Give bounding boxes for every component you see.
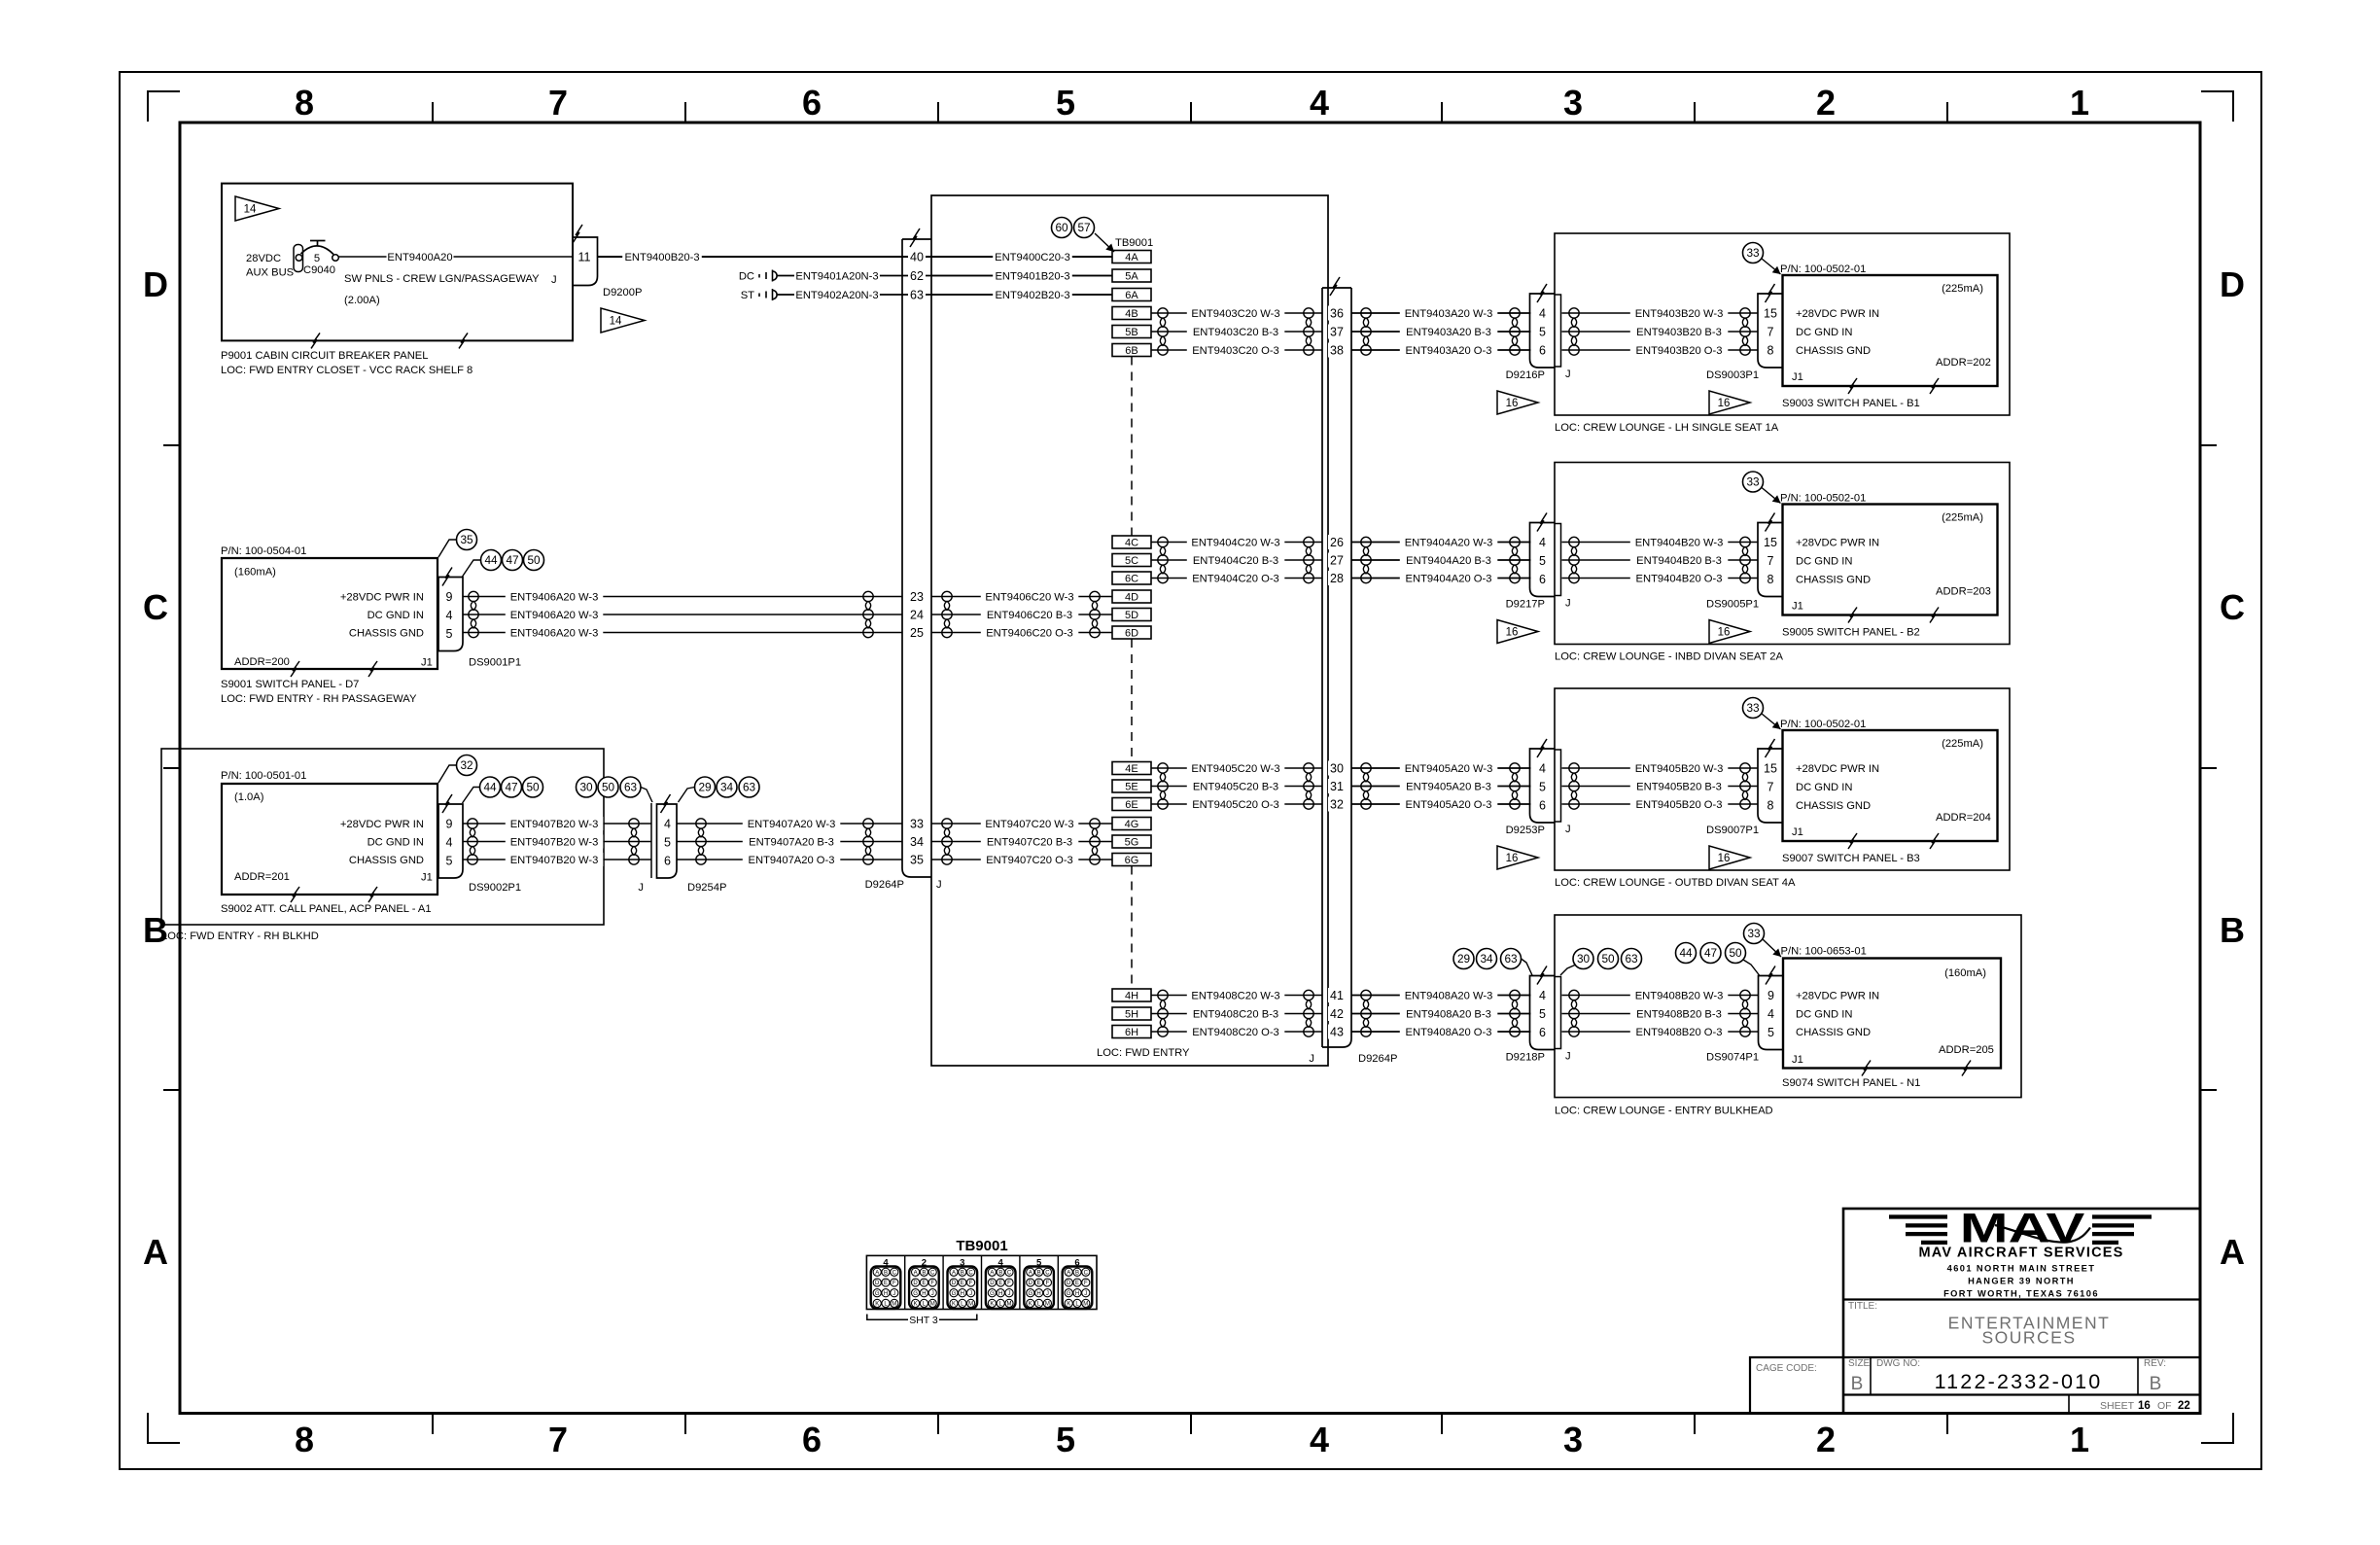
module 4 contacts <box>988 1268 1013 1307</box>
twisted shield symbol <box>1740 537 1750 582</box>
svg-text:DC GND IN: DC GND IN <box>1796 1009 1852 1021</box>
svg-text:DS9005P1: DS9005P1 <box>1706 599 1759 611</box>
wire ENT9404B20 O-3 <box>1562 578 1759 579</box>
svg-text:35: 35 <box>460 533 473 546</box>
zone tick right <box>2200 767 2217 769</box>
svg-text:K: K <box>875 1302 879 1308</box>
svg-text:B: B <box>1075 1271 1079 1277</box>
svg-text:H: H <box>1075 1291 1079 1297</box>
svg-text:63: 63 <box>1504 952 1518 966</box>
svg-text:8: 8 <box>1767 798 1774 812</box>
svg-text:P/N: 100-0502-01: P/N: 100-0502-01 <box>1780 263 1866 275</box>
svg-text:J: J <box>1565 369 1571 380</box>
wire ENT9402B20-3 <box>931 294 1112 296</box>
twisted shield symbol <box>1740 308 1750 355</box>
wire ENT9405B20 O-3 <box>1562 803 1759 805</box>
svg-text:(160mA): (160mA) <box>1944 967 1986 979</box>
wire ENT9403B20 O-3 <box>1562 349 1759 351</box>
svg-text:A: A <box>914 1271 918 1277</box>
svg-text:ENT9404B20 W-3: ENT9404B20 W-3 <box>1635 538 1724 549</box>
svg-text:J: J <box>1565 598 1571 610</box>
connector D9253P plug <box>1530 749 1556 823</box>
svg-text:B: B <box>1037 1271 1041 1277</box>
svg-text:S9007 SWITCH PANEL - B3: S9007 SWITCH PANEL - B3 <box>1782 853 1920 864</box>
svg-text:6: 6 <box>1539 798 1546 812</box>
wire ENT9404C20 W-3 <box>1151 542 1322 544</box>
S9002 inner box <box>222 784 437 895</box>
main drawing frame <box>180 123 2200 1414</box>
circled wire note 34 <box>717 777 737 797</box>
break symbol on DS9003P1 <box>1766 284 1775 302</box>
wire ENT9403A20 B-3 <box>1351 331 1531 333</box>
leader from 32 <box>438 765 457 783</box>
svg-text:CHASSIS GND: CHASSIS GND <box>1796 1027 1871 1038</box>
svg-text:D: D <box>143 264 168 304</box>
wire ENT9407B20 W-3 <box>463 859 651 860</box>
svg-text:ENT9401A20N-3: ENT9401A20N-3 <box>795 271 878 283</box>
connector DS9074P1 plug <box>1759 976 1784 1050</box>
svg-text:50: 50 <box>1601 952 1615 966</box>
pin 62 of D9264P <box>908 268 926 283</box>
zone tick left <box>163 444 180 446</box>
svg-text:6: 6 <box>802 83 822 123</box>
leader from 63 <box>1522 959 1533 975</box>
S9007 outer box <box>1555 688 2010 870</box>
svg-text:E: E <box>961 1281 964 1286</box>
svg-text:J1: J1 <box>421 872 433 884</box>
break symbol on inner box bottom <box>1962 1061 1971 1076</box>
svg-text:33: 33 <box>1746 475 1760 489</box>
wire ENT9406A20 W-3 <box>463 614 902 615</box>
svg-text:SOURCES: SOURCES <box>1981 1328 2076 1348</box>
svg-text:43: 43 <box>1330 1025 1344 1038</box>
svg-text:44: 44 <box>1679 946 1693 960</box>
svg-text:4B: 4B <box>1125 308 1137 320</box>
break symbol on inner box bottom <box>1930 833 1939 849</box>
svg-text:4: 4 <box>1767 1007 1774 1021</box>
svg-text:C: C <box>2220 587 2245 627</box>
svg-text:ENT9407A20 O-3: ENT9407A20 O-3 <box>749 855 835 866</box>
pin 42 of D9264P right strip <box>1328 1006 1346 1021</box>
circled wire note 32 <box>457 755 477 776</box>
svg-text:FORT WORTH, TEXAS 76106: FORT WORTH, TEXAS 76106 <box>1943 1289 2099 1299</box>
svg-text:15: 15 <box>1764 306 1777 320</box>
svg-text:6: 6 <box>1539 573 1546 586</box>
twisted shield symbol <box>863 819 873 864</box>
module 5 insert <box>1024 1267 1054 1309</box>
svg-text:CHASSIS GND: CHASSIS GND <box>349 855 424 866</box>
svg-text:M: M <box>1083 1302 1088 1308</box>
svg-text:D9218P: D9218P <box>1506 1052 1545 1064</box>
svg-text:M: M <box>968 1302 973 1308</box>
svg-text:G: G <box>1028 1291 1032 1297</box>
svg-text:SHT 3: SHT 3 <box>909 1315 938 1326</box>
svg-text:DC GND IN: DC GND IN <box>1796 327 1852 338</box>
twisted shield symbol <box>1158 763 1168 809</box>
svg-text:DS9002P1: DS9002P1 <box>469 882 521 894</box>
title block divider under address <box>1843 1298 2200 1300</box>
twisted shield symbol <box>1510 537 1520 582</box>
svg-text:B: B <box>922 1271 926 1277</box>
twisted shield symbol <box>629 819 639 864</box>
title block divider under dwg row <box>1843 1393 2200 1395</box>
circled wire note 30 <box>577 777 597 797</box>
svg-text:ENT9403C20 W-3: ENT9403C20 W-3 <box>1191 308 1279 320</box>
svg-text:9: 9 <box>446 817 453 830</box>
break symbol on inner box bottom <box>1848 608 1857 623</box>
pin 31 of D9264P right strip <box>1328 779 1346 793</box>
svg-text:C: C <box>892 1271 897 1277</box>
twisted shield symbol <box>1158 990 1168 1036</box>
wire ENT9407A20 B-3 <box>677 841 902 843</box>
svg-text:DC GND IN: DC GND IN <box>1796 782 1852 793</box>
svg-text:D9264P: D9264P <box>1358 1053 1397 1065</box>
svg-text:ENT9404A20 O-3: ENT9404A20 O-3 <box>1406 574 1492 585</box>
svg-text:P/N: 100-0502-01: P/N: 100-0502-01 <box>1780 493 1866 505</box>
svg-text:4: 4 <box>1310 1420 1329 1459</box>
svg-text:11: 11 <box>578 251 591 264</box>
zone tick top <box>1441 102 1443 123</box>
svg-text:ADDR=201: ADDR=201 <box>234 871 290 883</box>
svg-text:G: G <box>990 1291 995 1297</box>
svg-text:D: D <box>913 1281 918 1286</box>
svg-text:31: 31 <box>1330 780 1344 793</box>
svg-text:ENT9404C20 O-3: ENT9404C20 O-3 <box>1192 574 1279 585</box>
circled wire note 29 <box>695 777 716 797</box>
svg-text:ENT9408B20 B-3: ENT9408B20 B-3 <box>1636 1009 1722 1021</box>
svg-text:5: 5 <box>446 627 453 641</box>
svg-text:J: J <box>551 274 557 286</box>
svg-text:G: G <box>875 1291 880 1297</box>
wire ENT9405A20 B-3 <box>1351 786 1531 788</box>
twisted shield symbol <box>1090 591 1100 637</box>
svg-text:ENT9403A20 B-3: ENT9403A20 B-3 <box>1406 327 1491 338</box>
svg-text:14: 14 <box>610 316 622 328</box>
twisted shield symbol <box>1569 990 1579 1036</box>
wire ENT9405C20 W-3 <box>1151 767 1322 769</box>
twisted shield symbol <box>1569 763 1579 809</box>
svg-text:5: 5 <box>1056 1420 1075 1459</box>
svg-text:34: 34 <box>720 781 734 794</box>
svg-text:E: E <box>922 1281 926 1286</box>
wire ENT9404B20 B-3 <box>1562 559 1759 561</box>
leader from 63 <box>641 788 652 803</box>
pin 40 of D9264P <box>908 250 926 264</box>
pin 28 of D9264P right strip <box>1328 571 1346 585</box>
svg-text:ENT9405C20 O-3: ENT9405C20 O-3 <box>1192 799 1279 811</box>
circled wire note 60 <box>1052 218 1072 238</box>
svg-text:47: 47 <box>506 553 518 567</box>
circled wire note 50 <box>598 777 618 797</box>
wire ENT9400B20-3 <box>598 256 1113 258</box>
twisted shield symbol <box>1304 308 1313 355</box>
svg-text:ENT9403B20 W-3: ENT9403B20 W-3 <box>1635 308 1724 320</box>
svg-text:F: F <box>1084 1281 1088 1286</box>
terminal TB9001-6G <box>1112 854 1151 866</box>
dashed link 6B to 4C <box>1131 357 1133 537</box>
wire ENT9408B20 O-3 <box>1562 1031 1759 1033</box>
svg-text:SW PNLS - CREW LGN/PASSAGEWAY: SW PNLS - CREW LGN/PASSAGEWAY <box>344 273 540 285</box>
svg-text:B: B <box>1851 1374 1864 1394</box>
svg-text:D9200P: D9200P <box>603 287 642 298</box>
terminal TB9001-5C <box>1112 554 1151 567</box>
circled wire note 29 <box>1453 949 1474 969</box>
flag note 14 <box>601 308 645 333</box>
connector D9254P receptacle line <box>650 803 652 878</box>
break symbol on D9264P right strip <box>1330 277 1340 296</box>
wire ENT9404C20 B-3 <box>1151 559 1322 561</box>
circled wire note 33 <box>1743 243 1764 263</box>
wire ENT9406A20 W-3 <box>463 596 902 598</box>
svg-text:ENT9403A20 O-3: ENT9403A20 O-3 <box>1406 345 1492 357</box>
svg-text:J: J <box>969 1291 972 1297</box>
svg-text:2: 2 <box>1816 83 1836 123</box>
svg-text:16: 16 <box>1506 627 1519 639</box>
svg-text:+28VDC PWR IN: +28VDC PWR IN <box>1796 991 1879 1002</box>
svg-text:7: 7 <box>1767 325 1774 338</box>
svg-text:4G: 4G <box>1125 819 1139 830</box>
svg-text:M: M <box>1045 1302 1050 1308</box>
svg-text:M: M <box>1007 1302 1012 1308</box>
svg-text:D: D <box>952 1281 957 1286</box>
svg-text:ENT9405C20 W-3: ENT9405C20 W-3 <box>1191 763 1279 775</box>
svg-text:ENT9403B20 B-3: ENT9403B20 B-3 <box>1636 327 1722 338</box>
corner trim bracket bottom-right <box>2201 1413 2233 1443</box>
zone tick bottom <box>1946 1414 1948 1435</box>
svg-text:K: K <box>952 1302 956 1308</box>
break symbol on D9216P <box>1537 284 1547 302</box>
svg-text:H: H <box>961 1291 964 1297</box>
terminal TB9001-6B <box>1112 344 1151 357</box>
svg-text:D: D <box>1029 1281 1033 1286</box>
svg-text:CHASSIS GND: CHASSIS GND <box>1796 345 1871 357</box>
svg-text:47: 47 <box>505 781 517 794</box>
svg-text:14: 14 <box>244 204 257 216</box>
svg-text:K: K <box>1067 1302 1070 1308</box>
svg-text:+28VDC PWR IN: +28VDC PWR IN <box>340 819 424 830</box>
circled wire note 30 <box>1573 949 1593 969</box>
twisted shield symbol <box>1361 763 1371 809</box>
svg-text:4: 4 <box>1539 989 1546 1002</box>
terminal TB9001-6E <box>1112 798 1151 811</box>
svg-text:33: 33 <box>1746 701 1760 715</box>
svg-text:G: G <box>952 1291 957 1297</box>
svg-text:63: 63 <box>1625 952 1638 966</box>
twisted shield symbol <box>1158 537 1168 582</box>
break symbol on S9002 box bottom <box>291 887 299 902</box>
svg-text:5D: 5D <box>1125 610 1138 621</box>
svg-text:16: 16 <box>2138 1400 2151 1412</box>
svg-text:ENT9407B20 W-3: ENT9407B20 W-3 <box>510 837 599 849</box>
leader from 44 <box>463 560 481 577</box>
svg-text:J1: J1 <box>1792 826 1803 838</box>
svg-text:28: 28 <box>1330 572 1344 585</box>
svg-text:9: 9 <box>446 590 453 604</box>
svg-text:C: C <box>143 587 168 627</box>
zone tick bottom <box>937 1414 939 1435</box>
wire ENT9407C20 O-3 <box>931 859 1112 860</box>
leader from 29 <box>679 788 695 803</box>
svg-text:MAV AIRCRAFT SERVICES: MAV AIRCRAFT SERVICES <box>1918 1246 2123 1261</box>
svg-text:42: 42 <box>1330 1007 1344 1021</box>
svg-text:ENT9407B20 W-3: ENT9407B20 W-3 <box>510 819 599 830</box>
svg-text:ENT9406C20 W-3: ENT9406C20 W-3 <box>985 592 1073 604</box>
svg-text:ENT9407C20 B-3: ENT9407C20 B-3 <box>987 837 1072 849</box>
break symbol on D9217P <box>1537 513 1547 532</box>
svg-text:5C: 5C <box>1125 555 1138 567</box>
S9074 inner box <box>1783 959 2001 1069</box>
circled wire note 33 <box>1743 472 1764 492</box>
pin 35 of D9264P left strip <box>908 853 926 867</box>
svg-text:P/N: 100-0653-01: P/N: 100-0653-01 <box>1781 946 1867 958</box>
circled wire note 63 <box>739 777 759 797</box>
wire ENT9407A20 O-3 <box>677 859 902 860</box>
S9003 inner box <box>1783 275 1998 386</box>
svg-text:DC GND IN: DC GND IN <box>1796 556 1852 568</box>
wire ENT9400C20-3 <box>931 256 1112 258</box>
svg-text:D: D <box>1067 1281 1071 1286</box>
svg-text:J: J <box>1046 1291 1049 1297</box>
S9002 ATT call panel outer box <box>161 749 604 925</box>
svg-text:1: 1 <box>2070 1420 2089 1459</box>
svg-text:LOC: CREW LOUNGE - LH SINGLE S: LOC: CREW LOUNGE - LH SINGLE SEAT 1A <box>1555 422 1779 434</box>
svg-text:DS9001P1: DS9001P1 <box>469 657 521 669</box>
svg-text:ENT9407A20 W-3: ENT9407A20 W-3 <box>748 819 836 830</box>
svg-text:6C: 6C <box>1125 574 1138 585</box>
svg-text:J: J <box>1565 824 1571 835</box>
svg-text:H: H <box>884 1291 888 1297</box>
wire ENT9408B20 W-3 <box>1562 995 1759 997</box>
circuit breaker C9040 <box>294 245 303 272</box>
leader to TB9001 <box>1095 233 1114 252</box>
twisted shield symbol <box>1569 537 1579 582</box>
svg-text:ENT9408C20 B-3: ENT9408C20 B-3 <box>1193 1009 1278 1021</box>
wire ENT9402A20N-3 <box>777 294 1112 296</box>
connector D9217P plug <box>1530 523 1556 597</box>
flag note 16 <box>1709 391 1750 414</box>
module 2 contacts <box>911 1268 936 1307</box>
svg-text:6: 6 <box>802 1420 822 1459</box>
svg-text:5H: 5H <box>1125 1009 1138 1021</box>
wire ENT9408C20 W-3 <box>1151 995 1322 997</box>
svg-text:ENT9403B20 O-3: ENT9403B20 O-3 <box>1636 345 1723 357</box>
svg-text:6B: 6B <box>1125 345 1137 357</box>
svg-text:22: 22 <box>2178 1400 2190 1412</box>
break symbol on DS9001P1 <box>442 568 452 586</box>
twisted shield symbol <box>1569 308 1579 355</box>
svg-text:J1: J1 <box>1792 371 1803 383</box>
svg-text:7: 7 <box>1767 554 1774 568</box>
svg-text:ENT9407C20 O-3: ENT9407C20 O-3 <box>986 855 1073 866</box>
connector D9264P left strip <box>902 239 931 877</box>
pin 24 of D9264P left strip <box>908 608 926 622</box>
MAV logo speed lines left <box>1889 1214 1947 1218</box>
svg-text:62: 62 <box>910 269 924 283</box>
svg-text:60: 60 <box>1055 221 1068 234</box>
module 4 insert <box>871 1267 901 1309</box>
svg-text:ENT9405C20 B-3: ENT9405C20 B-3 <box>1193 782 1278 793</box>
wire ENT9401A20N-3 <box>777 275 1112 277</box>
connector DS9002P1 plug <box>438 804 463 878</box>
svg-text:P/N: 100-0504-01: P/N: 100-0504-01 <box>221 545 306 557</box>
connector D9217P receptacle strip <box>1555 524 1561 596</box>
wire ENT9405A20 W-3 <box>1351 767 1531 769</box>
svg-text:D9264P: D9264P <box>865 879 904 891</box>
twisted shield symbol <box>696 819 706 864</box>
svg-text:ENT9404A20 W-3: ENT9404A20 W-3 <box>1405 538 1493 549</box>
wire ENT9407B20 W-3 <box>463 841 651 843</box>
svg-text:16: 16 <box>1718 398 1731 409</box>
connector DS9005P1 plug <box>1758 523 1783 597</box>
svg-text:B: B <box>884 1271 888 1277</box>
svg-text:ENT9404A20 B-3: ENT9404A20 B-3 <box>1406 555 1491 567</box>
svg-text:ENT9405B20 W-3: ENT9405B20 W-3 <box>1635 763 1724 775</box>
break symbol on inner box bottom <box>1930 608 1939 623</box>
svg-text:S9005 SWITCH PANEL - B2: S9005 SWITCH PANEL - B2 <box>1782 627 1920 639</box>
pin 41 of D9264P right strip <box>1328 988 1346 1002</box>
svg-text:37: 37 <box>1330 325 1344 338</box>
svg-text:57: 57 <box>1077 221 1090 234</box>
wire ENT9401B20-3 <box>931 275 1112 277</box>
svg-text:6E: 6E <box>1125 799 1137 811</box>
circled wire note 44 <box>480 777 501 797</box>
module 6 insert <box>1063 1267 1093 1309</box>
wire ENT9406C20 W-3 <box>931 596 1112 598</box>
corner trim bracket top-right <box>2201 91 2233 122</box>
svg-text:F: F <box>969 1281 973 1286</box>
S9001 switch panel box <box>222 558 437 669</box>
svg-text:5: 5 <box>314 253 320 264</box>
leader from 33 <box>1762 259 1781 274</box>
svg-text:LOC: CREW LOUNGE - ENTRY BULKH: LOC: CREW LOUNGE - ENTRY BULKHEAD <box>1555 1106 1773 1117</box>
svg-text:E: E <box>1037 1281 1041 1286</box>
connector D9254P plug <box>657 804 678 878</box>
connector D9218P plug <box>1530 976 1556 1050</box>
zone tick top <box>1694 102 1696 123</box>
svg-text:ENT9408B20 W-3: ENT9408B20 W-3 <box>1635 991 1724 1002</box>
svg-text:E: E <box>884 1281 888 1286</box>
pin 38 of D9264P right strip <box>1328 343 1346 358</box>
svg-text:33: 33 <box>1747 927 1761 940</box>
terminal TB9001-4B <box>1112 307 1151 320</box>
circled wire note 47 <box>502 777 522 797</box>
twisted shield symbol <box>942 819 952 864</box>
svg-text:ENT9404C20 B-3: ENT9404C20 B-3 <box>1193 555 1278 567</box>
break symbol on D9254P <box>661 794 671 813</box>
svg-text:15: 15 <box>1764 536 1777 549</box>
module 3 contacts <box>950 1268 975 1307</box>
connector DS9003P1 plug <box>1758 294 1783 368</box>
svg-text:30: 30 <box>1330 761 1344 775</box>
svg-text:7: 7 <box>548 1420 568 1459</box>
svg-text:ENT9405A20 O-3: ENT9405A20 O-3 <box>1406 799 1492 811</box>
terminal block TB9001 body <box>866 1255 1097 1309</box>
svg-text:D: D <box>875 1281 880 1286</box>
sheet row divider <box>2068 1395 2070 1414</box>
terminal TB9001-6D <box>1112 626 1151 639</box>
twisted shield symbol <box>469 591 478 637</box>
svg-text:ENT9406A20 W-3: ENT9406A20 W-3 <box>510 610 599 621</box>
wire ENT9406C20 O-3 <box>931 632 1112 634</box>
terminal TB9001-4A <box>1112 251 1151 263</box>
wire ENT9408A20 B-3 <box>1351 1013 1531 1015</box>
break symbol on D9200P <box>573 225 582 243</box>
module 5 contacts <box>1027 1268 1052 1307</box>
svg-text:5: 5 <box>1539 780 1546 793</box>
module 3 insert <box>948 1267 978 1309</box>
svg-text:6: 6 <box>1539 1026 1546 1039</box>
svg-text:27: 27 <box>1330 553 1344 567</box>
